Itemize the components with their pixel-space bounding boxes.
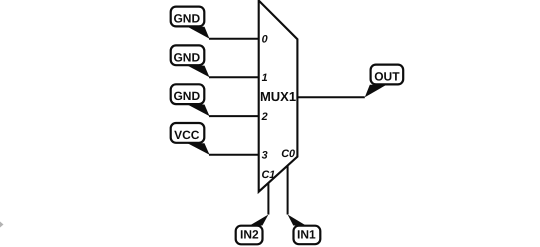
wire pin 2 (209, 115, 259, 117)
svg-text:1: 1 (262, 72, 268, 84)
wire pin 1 (209, 76, 259, 78)
svg-text:0: 0 (262, 34, 268, 46)
net label OUT (365, 65, 403, 98)
svg-text:IN1: IN1 (297, 227, 316, 241)
net label GND (pin 2) (171, 84, 210, 116)
svg-text:3: 3 (262, 150, 268, 162)
wire pin 3 (209, 154, 259, 156)
net label IN2 (236, 215, 269, 245)
svg-text:C0: C0 (281, 148, 295, 160)
svg-text:GND: GND (173, 50, 200, 64)
svg-text:C1: C1 (262, 169, 276, 181)
svg-text:GND: GND (173, 89, 200, 103)
net label GND (pin 1) (171, 45, 210, 77)
svg-text:MUX1: MUX1 (260, 89, 296, 104)
svg-text:VCC: VCC (174, 128, 200, 142)
net label VCC (pin 3) (171, 123, 210, 155)
svg-text:IN2: IN2 (240, 227, 259, 241)
stray mark left edge (0, 222, 4, 228)
svg-text:GND: GND (173, 12, 200, 26)
wire pin 0 (209, 38, 259, 40)
svg-text:OUT: OUT (374, 70, 400, 84)
multiplexer U1 MUX1 body (259, 1, 298, 192)
wire OUT net (297, 96, 364, 98)
net label GND (pin 0) (171, 7, 210, 39)
wire C0 to IN1 (287, 166, 289, 215)
wire C1 to IN2 (267, 183, 269, 215)
svg-text:2: 2 (261, 111, 268, 123)
net label IN1 (288, 215, 321, 245)
